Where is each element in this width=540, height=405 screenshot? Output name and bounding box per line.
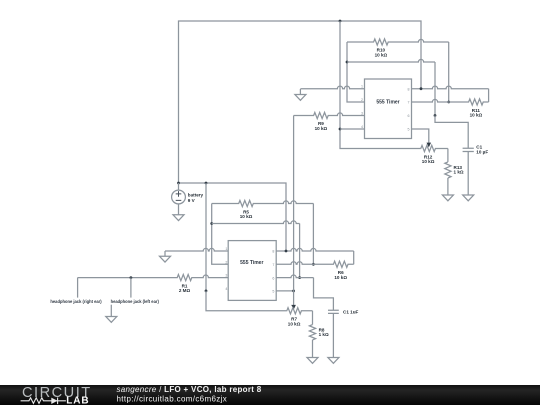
node VCC at U1 pin8 — [285, 250, 288, 253]
node U1 pin5 control — [292, 290, 295, 293]
wire R10 left leg to U2 pin2 — [347, 42, 365, 102]
svg-text:sangencre / LFO + VCO, lab rep: sangencre / LFO + VCO, lab report 8 — [117, 385, 262, 394]
svg-text:10 kΩ: 10 kΩ — [422, 159, 435, 164]
node U1 pin4 VCC — [205, 290, 208, 293]
wire U2 pin5 to R12 wiper — [412, 129, 429, 143]
node bridge at U1 pin6 — [298, 276, 301, 279]
node R10 leg at pin7 — [447, 101, 450, 104]
wire headphone jack right ear — [77, 278, 79, 298]
svg-text:C1 1uF: C1 1uF — [343, 309, 359, 314]
wire C1 lower to ground — [332, 313, 334, 357]
svg-text:7: 7 — [272, 263, 274, 267]
node R5 leg / bridge junction — [210, 222, 213, 225]
svg-text:2 MΩ: 2 MΩ — [179, 288, 191, 293]
svg-text:10 kΩ: 10 kΩ — [334, 275, 347, 280]
capacitor C1 10uF — [463, 148, 474, 151]
wire U1 pin8 VCC row — [276, 248, 354, 251]
svg-text:LAB: LAB — [66, 395, 89, 405]
ground headphone jack — [110, 305, 112, 317]
svg-text:8: 8 — [272, 250, 274, 254]
wire VCC drop to U2 pin4 and R12 — [340, 21, 421, 149]
resistor R11 — [412, 99, 489, 105]
wire U1 pin1 to ground — [165, 248, 228, 251]
node VCC rail junction — [339, 20, 342, 23]
resistor R9 — [294, 112, 365, 118]
wire R11 right leg — [488, 89, 490, 102]
wire U1 pin5 to R7 wiper — [276, 290, 293, 292]
wire VCC top rail — [179, 21, 422, 183]
svg-text:8: 8 — [408, 87, 410, 91]
R7 wiper arrow — [291, 305, 296, 310]
svg-text:1 kΩ: 1 kΩ — [319, 332, 329, 337]
R12 wiper arrow — [427, 143, 432, 148]
node battery top — [177, 182, 180, 185]
svg-text:6: 6 — [408, 114, 410, 118]
resistor R6 — [276, 261, 354, 267]
svg-text:http://circuitlab.com/c6m6zjx: http://circuitlab.com/c6m6zjx — [117, 395, 228, 404]
node bridge at U2 pin6 — [434, 114, 437, 117]
svg-text:headphone jack (left ear): headphone jack (left ear) — [111, 299, 160, 304]
battery V1 9V — [178, 183, 180, 190]
svg-text:10 kΩ: 10 kΩ — [288, 321, 301, 326]
node headphone left junction — [130, 276, 133, 279]
wire U2 pin4 stub — [340, 128, 365, 130]
CircuitLab logo — [21, 385, 92, 405]
resistor R8 — [312, 311, 314, 325]
svg-text:9 V: 9 V — [188, 198, 196, 203]
potentiometer R7 — [287, 308, 313, 314]
ground R8 — [312, 340, 314, 358]
wire bridge U2 pin2 to pin6 — [347, 59, 435, 62]
svg-text:10 kΩ: 10 kΩ — [315, 126, 328, 131]
wire C1 to ground — [467, 152, 469, 196]
wire U2 pin1 to ground — [300, 86, 364, 89]
potentiometer R12 — [421, 145, 448, 151]
wire R6 right leg — [353, 251, 355, 264]
resistor R13 — [447, 149, 449, 162]
ground C1 lower — [328, 358, 339, 364]
svg-text:10 kΩ: 10 kΩ — [470, 113, 483, 118]
svg-text:7: 7 — [408, 101, 410, 105]
resistor R10 — [347, 39, 449, 45]
svg-text:5: 5 — [272, 290, 274, 294]
resistor R1 — [78, 275, 228, 281]
svg-text:4: 4 — [225, 287, 227, 291]
svg-text:555 Timer: 555 Timer — [240, 260, 263, 266]
wire U1 pin6 to C1 — [276, 275, 313, 278]
wire bridge U1 pin2 to pin6 — [212, 221, 300, 224]
node battery rail to U1 — [205, 182, 208, 185]
wire VCC drop to U1 — [205, 183, 207, 291]
svg-text:headphone jack (right ear): headphone jack (right ear) — [50, 299, 102, 304]
svg-text:6: 6 — [272, 276, 274, 280]
svg-text:555 Timer: 555 Timer — [376, 99, 399, 105]
svg-text:5: 5 — [408, 128, 410, 132]
capacitor C1 1uF — [328, 310, 339, 313]
op-amp U1 555 Timer box — [228, 241, 276, 301]
node VCC at U2 pin8 — [420, 87, 423, 90]
ground battery — [173, 215, 184, 221]
svg-text:10 kΩ: 10 kΩ — [240, 214, 253, 219]
node U2 pin4 VCC — [339, 128, 342, 131]
wire wiper stem — [293, 291, 295, 306]
wire R5 left leg to U1 pin2 — [212, 204, 228, 265]
wire battery rail — [179, 183, 287, 251]
svg-text:10 µF: 10 µF — [476, 149, 488, 154]
resistor R5 — [212, 200, 314, 206]
wire U2 pin8 VCC row — [412, 86, 489, 89]
wire headphone jack left ear — [130, 278, 132, 298]
wire VCC to R7 — [206, 291, 287, 311]
node R5 leg at pin7 — [312, 263, 315, 266]
svg-text:10 kΩ: 10 kΩ — [375, 52, 388, 57]
wire R5 right leg to U1 pin7 — [312, 204, 314, 265]
ground U2 pin1 — [299, 89, 301, 95]
node R10-leg / bridge junction — [346, 61, 349, 64]
op-amp U2 555 Timer box — [365, 79, 412, 139]
wire control from R9 — [293, 116, 295, 291]
ground C1 — [463, 195, 474, 201]
ground U1 pin1 — [164, 251, 166, 256]
ground R13 — [447, 178, 449, 195]
wire U2 pin6 to C1 — [435, 116, 468, 149]
svg-text:1 kΩ: 1 kΩ — [454, 170, 464, 175]
wire R10 right leg to U2 pin7 — [448, 42, 450, 102]
